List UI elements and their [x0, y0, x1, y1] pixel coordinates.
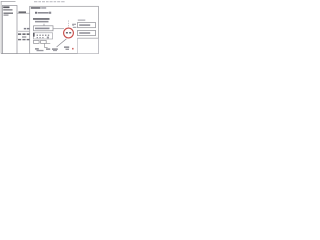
bottom text cluster 3 — [46, 48, 50, 49]
pads inside circle — [66, 32, 68, 34]
component U3 pin up — [43, 24, 45, 26]
pin stub above circle — [68, 20, 70, 27]
bottom right block — [78, 38, 99, 53]
bottom text cluster 2 — [37, 50, 44, 51]
center label text line 2 — [35, 21, 49, 23]
annotation text TS line2 — [66, 49, 70, 50]
bottom right block top edge — [78, 37, 99, 39]
block J1 pin text — [4, 13, 14, 14]
net label table row 3 — [22, 36, 26, 37]
component U4 body — [33, 33, 52, 39]
bottom text cluster 1 — [35, 48, 39, 49]
component U3 body — [34, 26, 54, 31]
right block R1 text — [79, 24, 90, 26]
title text row — [34, 1, 65, 2]
component U4 left bar — [33, 33, 35, 37]
panel subheader icon — [49, 12, 51, 14]
pin number mark — [72, 24, 74, 26]
right block R1 — [78, 23, 96, 28]
bottom text cluster 4b — [53, 50, 57, 51]
sheet border left edge — [0, 1, 2, 53]
block J1 value text — [3, 9, 12, 11]
wire net A6_06 — [17, 12, 30, 14]
annotation text TS — [64, 46, 69, 48]
connector block J1 — [2, 6, 17, 54]
component U4 pin dots row 1 — [37, 35, 50, 36]
net label table row 1 — [18, 31, 29, 32]
center label text line 1 — [33, 18, 50, 20]
bottom text cluster 4 — [52, 48, 58, 49]
net label stub left — [24, 28, 27, 30]
panel subheader text — [35, 12, 37, 14]
component U5 body — [34, 40, 40, 43]
right block R1 label above — [78, 20, 86, 21]
component U6 bottom edge extension — [46, 42, 50, 44]
pin text left of R1 — [72, 24, 76, 25]
net label table row 2 — [18, 33, 29, 35]
right block R2 text — [79, 32, 90, 34]
leader line to highlight — [57, 39, 67, 47]
wire to highlight — [53, 28, 64, 30]
panel header text — [31, 7, 41, 9]
net label table row 4 — [18, 39, 29, 40]
right block R2 — [78, 30, 96, 35]
sheet border bottom edge — [1, 53, 98, 55]
red mark below — [72, 48, 74, 50]
component U3 text — [35, 28, 50, 30]
highlight circle (red) — [64, 28, 74, 38]
component U6 body — [41, 40, 47, 43]
sheet border top-left segment — [1, 0, 16, 2]
main panel U2 — [30, 6, 99, 53]
block J1 pin text 2 — [4, 15, 9, 16]
block J1 name text — [3, 6, 9, 8]
net label A6_06 — [19, 11, 27, 13]
component U4 pin dots row 2 — [37, 37, 49, 39]
wire drop — [45, 43, 48, 47]
pin text left of R2 — [73, 27, 77, 28]
